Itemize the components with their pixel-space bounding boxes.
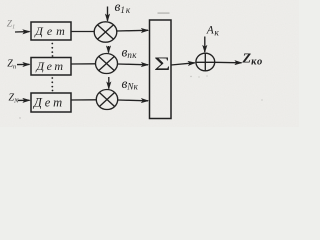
input arrow row2	[17, 63, 30, 65]
multiplier M3 cross	[99, 93, 114, 107]
input arrow row1	[15, 31, 30, 33]
input arrow Ak	[204, 37, 206, 53]
coefficient arrow bNk	[108, 77, 110, 89]
wire box2 to multiplier M2	[71, 63, 96, 65]
multiplier M2 cross	[99, 57, 114, 71]
faint specks	[19, 75, 262, 118]
multiplier M1 cross	[98, 25, 114, 39]
summer sigma	[154, 53, 170, 75]
adder plus	[196, 53, 214, 70]
detector box D2	[31, 58, 71, 76]
wire box1 to multiplier M1	[71, 31, 95, 33]
dotted separator 1	[51, 43, 53, 45]
svg-text:Σ: Σ	[154, 53, 170, 75]
coefficient arrow b1k	[107, 7, 109, 21]
wire M1 to summer	[117, 29, 148, 32]
input arrow row3	[18, 99, 30, 101]
coefficient arrow bnk	[108, 46, 110, 53]
multiplier M1 circle	[94, 22, 117, 42]
wire summer to adder	[171, 63, 195, 65]
paper background	[0, 0, 299, 127]
wire M2 to summer	[118, 63, 149, 66]
wire M3 to summer	[118, 99, 148, 102]
detector box D1	[31, 22, 71, 40]
output arrow Zko	[215, 61, 242, 64]
svg-text:Дет: Дет	[34, 24, 68, 38]
svg-text:Дет: Дет	[36, 59, 66, 73]
wire box3 to multiplier M3	[71, 99, 97, 101]
dotted separator 2	[51, 77, 53, 79]
svg-text:Дет: Дет	[33, 96, 65, 110]
adder circle	[196, 53, 215, 71]
summer box	[150, 20, 172, 119]
detector box D3	[31, 93, 71, 112]
multiplier M3 circle	[96, 90, 117, 110]
faint smudge top of summer	[158, 12, 170, 14]
multiplier M2 circle	[96, 54, 118, 74]
